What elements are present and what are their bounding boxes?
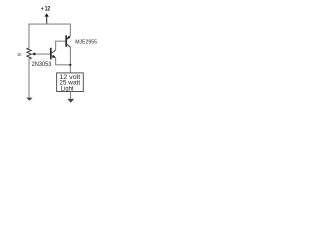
wire top rail [29, 24, 70, 48]
potentiometer wiper arrowhead [32, 53, 36, 56]
wire Q1 collector to Q2 base [56, 41, 66, 50]
ground arrow right [67, 99, 74, 103]
wire Q1 emitter down and right to node [56, 58, 71, 65]
ground arrow left [26, 98, 32, 101]
svg-text:+: + [41, 5, 44, 12]
wire Q2 collector down to lamp [69, 47, 71, 73]
wire lamp to ground [70, 92, 72, 100]
svg-text:1K: 1K [17, 52, 22, 58]
potentiometer R1 1K body [27, 48, 31, 59]
svg-text:Light: Light [61, 86, 74, 92]
power symbol +12 arrow [45, 13, 49, 24]
wire pot bottom to ground [28, 59, 30, 98]
junction dot [69, 64, 71, 66]
transistor Q2 MJE2955 [66, 35, 70, 47]
potentiometer wiper wire to Q1 base [35, 53, 50, 55]
svg-text:12: 12 [45, 6, 51, 13]
transistor Q1 2N3053 [51, 48, 56, 60]
svg-text:MJE2955: MJE2955 [75, 39, 97, 45]
svg-text:2N3053: 2N3053 [32, 61, 52, 68]
lamp L1 box [57, 73, 84, 92]
